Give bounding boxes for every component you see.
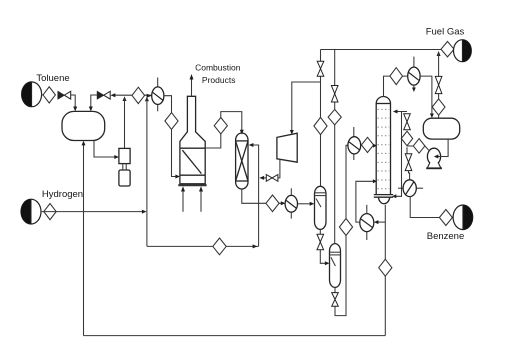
arrow into reboiler (374, 220, 379, 224)
furnace coil diagonal (182, 150, 201, 173)
arrow reflux into column (393, 110, 398, 114)
arrow air 2 (199, 186, 203, 191)
wire pump discharge riser (124, 98, 126, 148)
exchanger E-104 condenser (408, 57, 420, 90)
arrow into exchanger E-101 (147, 94, 152, 98)
column trays dotted (378, 109, 390, 188)
exchanger E-103 feed heater (348, 127, 361, 160)
wire recycle gas into compressor (292, 82, 321, 131)
arrow into pump P-102 (434, 155, 439, 159)
wire condenser outlet to V-104 (420, 76, 432, 115)
arrow gas feed joins quench line (253, 244, 258, 248)
vessel V-104 reflux drum (423, 118, 459, 139)
wire drum to pump P-101 (94, 141, 118, 158)
wire E-102 to V-102 (298, 203, 312, 205)
arrow into pump P-101 (114, 155, 119, 159)
arrow side line into column base (392, 194, 396, 198)
wire reboiler return loop (356, 181, 375, 222)
vessel V-103 LP separator (330, 244, 341, 288)
stream flag 11 column feed (361, 137, 373, 152)
stream flag 10 column feed riser (339, 219, 352, 236)
svg-text:Fuel Gas: Fuel Gas (426, 27, 465, 38)
wire compressor outlet to valve (278, 159, 280, 178)
wire bottom recycle run (84, 335, 386, 337)
pump P-101 upper box (119, 148, 130, 163)
stream flag 16 reflux pump discharge (413, 139, 425, 154)
valve toluene feed (58, 91, 71, 99)
wire benzene product line (410, 197, 454, 218)
arrow recycle into drum bottom (82, 141, 86, 146)
pump P-101 shaft (123, 164, 126, 170)
wire column feed through E-103 (361, 144, 375, 146)
sink circle benzene (453, 205, 473, 230)
valve recycle into drum (97, 91, 110, 99)
furnace coil bottom line (180, 174, 205, 176)
exchanger E-106 reboiler (360, 205, 374, 240)
wire toluene feed to valve (42, 94, 43, 96)
sink circle fuel gas (454, 40, 472, 62)
furnace coil top line (180, 147, 205, 149)
wire column bottoms (384, 205, 386, 336)
furnace base plate (178, 184, 206, 186)
wire reflux run riser (396, 112, 407, 154)
arrow into compressor top (290, 130, 294, 135)
stream flag 5 furnace feed (165, 113, 178, 130)
arrow recycle joins quench riser (259, 176, 264, 180)
stream flag 8 recycle gas (314, 117, 327, 134)
valve V-102 liquid (317, 234, 324, 249)
wire bottoms branch to reboiler (376, 221, 385, 223)
valve V-102 gas riser (317, 61, 324, 76)
stream flag 12 overhead vapour (390, 68, 403, 85)
wire V-104 liquid to pump P-102 (437, 139, 449, 156)
stream flag 13 vent (432, 99, 445, 115)
arrow vent joins fuel gas header (437, 51, 441, 56)
wire stack line (191, 76, 193, 96)
valve V-104 vent (435, 76, 442, 93)
compressor C-101 trapezoid (277, 133, 297, 162)
arrow feed into column (373, 144, 377, 148)
wire V-104 vent riser (438, 53, 440, 118)
arrow into E-102 (281, 201, 286, 205)
svg-text:Toluene: Toluene (36, 73, 69, 84)
vessel V-102 HP separator (315, 186, 327, 229)
stream flag 9 V-103 gas (328, 109, 341, 124)
wire hydrogen feed line (41, 211, 143, 213)
junction arrow up pump discharge (123, 96, 127, 101)
arrow air 1 (181, 186, 185, 191)
svg-text:Hydrogen: Hydrogen (42, 189, 83, 200)
stream flag 1 toluene (43, 87, 55, 103)
wire valve to E-105 (409, 171, 410, 180)
stream flag 2 combined feed (132, 87, 145, 103)
reactor R-101 vessel (236, 133, 248, 189)
stream flag 6 reactor feed (214, 118, 227, 134)
furnace air line 1 (182, 188, 184, 212)
junction arrow up hydrogen join (145, 97, 149, 102)
source circle toluene feed (22, 82, 42, 107)
wire fuel gas header (321, 49, 442, 51)
arrow hydrogen joins gas riser (142, 210, 147, 214)
wire V-103 gas riser (334, 50, 336, 244)
arrow cooling water out (412, 88, 416, 93)
wire side line along column (395, 112, 402, 197)
wire gas feed run to reactor (147, 245, 259, 247)
wire quench riser into reactor (250, 145, 258, 246)
stream flag 3 hydrogen (44, 204, 56, 220)
wire valve to quench riser (263, 177, 266, 179)
wire valve to drum top (71, 95, 76, 108)
pump P-101 lower box (119, 170, 130, 186)
wire E-101 outlet to furnace (164, 96, 177, 177)
wire furnace effluent to reactor (205, 112, 242, 148)
wire pump discharge to reflux run (407, 146, 429, 151)
arrow quench into reactor (249, 143, 254, 147)
valve V-103 gas riser (331, 86, 338, 103)
arrow into V-103 (325, 261, 330, 265)
stream flag 15 distillate (401, 131, 412, 146)
source circle hydrogen feed (21, 199, 41, 224)
wire gas feed riser x147 (146, 98, 148, 246)
svg-text:Combustion: Combustion (195, 63, 241, 73)
exchanger E-102 effluent cooler (285, 188, 297, 218)
pump P-102 (426, 148, 442, 168)
vessel V-101 toluene drum (62, 111, 105, 140)
arrow reboiler return into column (373, 179, 377, 183)
stream flag 18 toluene recycle (379, 259, 392, 276)
arrow into reactor top (240, 130, 244, 135)
valve V-103 liquid (332, 293, 339, 307)
wire valve to V-103 (320, 250, 327, 264)
exchanger E-101 feed preheater (152, 78, 164, 112)
stream flag 7 reactor effluent (266, 195, 279, 212)
furnace H-101 body and stack (180, 96, 205, 184)
valve recycle gas (266, 175, 278, 182)
furnace air line 2 (200, 188, 202, 212)
wire V-102 liquid to valve (319, 229, 321, 234)
svg-text:Benzene: Benzene (427, 231, 465, 242)
arrow into valve2 pointing left (110, 93, 115, 97)
stream flag 14 fuel gas (441, 42, 454, 57)
exchanger E-105 product cooler (398, 180, 423, 197)
wire column overhead (384, 76, 408, 97)
wire reactor outlet to E-102 (242, 189, 284, 204)
arrow into V-104 (430, 114, 434, 119)
stream flag 17 benzene (439, 210, 452, 226)
valve reflux upper (404, 114, 411, 130)
wire V-102 gas riser (320, 50, 322, 187)
wire toluene recycle riser x83.5 (83, 144, 85, 336)
arrow into furnace (175, 175, 180, 179)
wire V-103 liquid drain (335, 145, 348, 315)
wire valve2 to drum top (91, 95, 97, 108)
arrow combustion products up (190, 74, 194, 80)
stream flag 4 reactor gas feed (213, 238, 226, 255)
arrow into V-102 (310, 202, 315, 206)
arrow into drum right nozzle (89, 107, 93, 112)
wire pump spillback line y95 (115, 94, 151, 96)
column T-101 shell (374, 97, 393, 204)
arrow into drum left nozzle (73, 107, 77, 112)
svg-text:Products: Products (202, 75, 236, 85)
valve product lower (405, 154, 412, 171)
